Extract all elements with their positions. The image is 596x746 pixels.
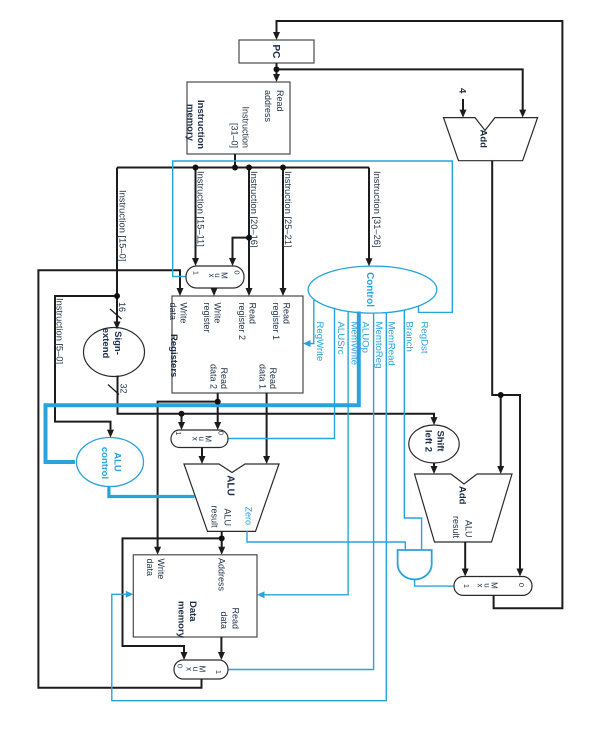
svg-text:MemWrite: MemWrite	[349, 322, 360, 366]
arrowhead: read data 2 into data memory write data	[154, 547, 161, 555]
svg-text:Instruction [20–16]: Instruction [20–16]	[249, 171, 259, 248]
arrowhead: read data into MemtoReg mux 1	[218, 652, 225, 660]
junction node: sign-extend riser tap	[179, 411, 185, 417]
svg-text:MemRead: MemRead	[386, 322, 397, 366]
wire: instruction [31-26] to control	[368, 168, 370, 259]
svg-text:MemtoReg: MemtoReg	[373, 322, 384, 369]
wire: ALUSrc mux output to ALU	[201, 448, 203, 457]
wire: control signal RegDst to mux select	[173, 161, 453, 312]
svg-text:Read: Read	[247, 303, 257, 325]
slash 32	[108, 385, 119, 395]
svg-text:4: 4	[457, 88, 468, 94]
svg-text:0: 0	[233, 270, 242, 274]
svg-text:Read: Read	[275, 90, 285, 112]
wire: instruction [5-0] to ALU control	[55, 296, 117, 430]
svg-text:RegWrite: RegWrite	[314, 322, 325, 362]
wire: instruction memory output to bus	[234, 154, 236, 168]
svg-text:Read: Read	[231, 607, 241, 629]
wire: instruction [25-21] to read register 1	[282, 168, 284, 289]
svg-text:x: x	[191, 437, 200, 441]
svg-text:Write: Write	[178, 303, 188, 324]
svg-text:1: 1	[462, 584, 471, 588]
svg-text:Read: Read	[219, 367, 229, 389]
wire: instruction bus vertical	[117, 167, 369, 169]
svg-text:0: 0	[217, 431, 226, 435]
svg-text:Instruction [31–26]: Instruction [31–26]	[372, 171, 382, 248]
arrowhead: read data 1 into ALU	[263, 456, 270, 464]
shift left 2 ellipse	[409, 425, 459, 463]
wire: PC up to Add (PC+4) top input	[277, 69, 523, 110]
arrowhead: ALUSrc mux output into ALU	[199, 456, 206, 464]
svg-text:left 2: left 2	[423, 430, 434, 452]
junction node: bus at instruction [25-21]	[280, 165, 286, 171]
svg-text:1: 1	[192, 271, 201, 275]
arrowhead: [15-0] into sign-extend	[114, 322, 121, 330]
svg-text:ALUSrc: ALUSrc	[335, 322, 346, 355]
wire: PC output to junction	[276, 63, 278, 75]
arrowhead: shift left 2 into branch adder	[431, 466, 438, 474]
arrowhead: mux output into write register	[211, 288, 218, 296]
wire: constant 4 into Add	[462, 99, 464, 110]
mux ALUSrc	[171, 430, 228, 448]
junction node: bus at memory output	[232, 165, 238, 171]
svg-text:Branch: Branch	[404, 322, 415, 352]
wire: control signal ALUSrc to mux select	[229, 308, 335, 439]
svg-text:Write: Write	[156, 559, 166, 580]
arrowhead: into PC	[273, 32, 280, 40]
wire: Add (PC+4) output	[492, 161, 501, 395]
wire: ALU control output to ALU	[109, 487, 195, 497]
wire: data memory read data to MemtoReg mux input 1	[220, 637, 222, 653]
svg-text:1: 1	[214, 670, 223, 674]
svg-text:Read: Read	[281, 303, 291, 325]
junction node: bus at instruction [15-11]	[193, 165, 199, 171]
wire: control signal MemtoReg to mux select	[229, 313, 374, 670]
wire: control signal ALUOp to ALU control	[46, 312, 359, 463]
svg-text:Instruction [5–0]: Instruction [5–0]	[55, 298, 65, 364]
svg-text:Read: Read	[268, 367, 278, 389]
svg-text:RegDst: RegDst	[419, 322, 430, 354]
wire: write-back loop to registers write data	[38, 270, 201, 687]
wire: Zero flag from ALU to AND gate	[247, 531, 405, 550]
svg-text:1: 1	[174, 431, 183, 435]
mux RegDst (write register select)	[186, 266, 244, 288]
svg-text:0: 0	[517, 583, 526, 587]
wire: read data 1 to ALU	[266, 393, 268, 457]
svg-text:Control: Control	[364, 272, 375, 307]
svg-text:x: x	[185, 667, 194, 671]
ALU (main)	[184, 464, 279, 531]
arrowhead: RegWrite into registers	[303, 340, 311, 347]
svg-text:ALU: ALU	[112, 452, 123, 472]
svg-text:extend: extend	[100, 328, 111, 359]
arrowhead: instruction [31-26] into control	[366, 258, 373, 266]
wire: branch adder output to PCSrc mux input 1	[464, 542, 466, 569]
arrowhead: PC into Add	[519, 110, 526, 118]
arrowhead: sign-extend into ALUSrc mux 1	[178, 422, 185, 430]
junction node: bus at instruction [20-16]	[246, 165, 252, 171]
svg-text:Instruction [15–11]: Instruction [15–11]	[196, 171, 206, 247]
wire: read data 2 to ALUSrc mux input 0	[217, 393, 219, 423]
svg-text:[31–0]: [31–0]	[230, 123, 240, 148]
adder Add (branch target, ALU result)	[415, 474, 513, 542]
svg-text:data: data	[219, 611, 229, 629]
svg-text:register 2: register 2	[237, 303, 247, 341]
wire: ALU result bypass to MemtoReg mux input 0	[123, 538, 222, 652]
arrowhead: into read register 2	[246, 288, 253, 296]
svg-text:result: result	[451, 516, 461, 539]
svg-text:Instruction: Instruction	[195, 100, 206, 149]
mux MemtoReg	[174, 660, 228, 679]
wire: read data 2 branch to data memory write data	[158, 402, 218, 547]
junction node: PC output	[274, 66, 280, 72]
wire: control signal MemRead to data memory	[112, 313, 387, 701]
arrowhead: into read register 1	[280, 288, 287, 296]
arrowhead: 4 into Add	[460, 110, 467, 118]
control unit ellipse	[308, 266, 437, 313]
arrowhead: read data 2 into ALUSrc mux 0	[214, 422, 221, 430]
wire: control signal RegWrite to registers	[310, 300, 314, 344]
arrowhead: [15-11] into RegDst mux 1	[192, 258, 199, 266]
instruction memory box	[187, 82, 290, 154]
wire: sign-extend output riser to shift left 2	[118, 376, 435, 418]
arrowhead: [20-16] into RegDst mux 0	[229, 258, 236, 266]
wire: shift left 2 output to branch adder	[433, 463, 435, 467]
svg-text:Instruction: Instruction	[241, 106, 251, 148]
svg-text:control: control	[99, 447, 110, 479]
arrowhead: branch target into PCSrc mux 1	[462, 569, 469, 577]
svg-text:32: 32	[119, 384, 129, 394]
svg-text:0: 0	[176, 664, 185, 668]
arrowhead: write-back into write data	[177, 288, 184, 296]
AND gate (branch)	[398, 550, 432, 579]
wire: AND gate output to PCSrc mux select	[415, 579, 454, 586]
svg-text:data: data	[145, 559, 155, 577]
svg-text:x: x	[476, 584, 485, 588]
svg-text:Add: Add	[478, 130, 489, 149]
svg-text:Instruction [15–0]: Instruction [15–0]	[118, 190, 128, 261]
junction node: instruction [5-0] tap	[114, 293, 120, 299]
junction node: PC+4 split	[498, 392, 504, 398]
svg-text:16: 16	[117, 302, 127, 312]
arrowhead: ALU result into data memory address	[218, 547, 225, 555]
wire: control signal Branch to AND gate	[404, 310, 421, 550]
wire: PCSrc mux output feedback loop to PC	[277, 21, 563, 608]
junction node: read data 2 tap	[215, 399, 221, 405]
svg-text:Sign-: Sign-	[112, 331, 123, 355]
wire: control signal MemWrite to data memory	[264, 311, 348, 595]
svg-text:PC: PC	[270, 45, 281, 59]
arrowhead: MemRead into data memory	[126, 591, 134, 598]
wire: instruction [20-16] to read register 2	[248, 168, 250, 289]
mux PCSrc (top right)	[454, 577, 532, 596]
arrowhead: [5-0] into ALU control	[107, 430, 114, 438]
svg-text:register 1: register 1	[271, 303, 281, 341]
arrowhead: ALU result into MemtoReg mux 0	[181, 652, 188, 660]
svg-text:data 1: data 1	[258, 364, 268, 389]
arrowhead: MemWrite into data memory	[257, 591, 265, 598]
registers (register file) box	[172, 296, 303, 393]
arrowhead: PC+4 into PCSrc mux 0	[517, 569, 524, 577]
slash 16	[110, 309, 122, 319]
wire: RegDst mux output to write register	[213, 288, 215, 289]
sign-extend ellipse	[84, 328, 145, 377]
svg-text:result: result	[210, 505, 220, 528]
svg-text:memory: memory	[185, 104, 196, 142]
svg-text:Data: Data	[187, 601, 198, 622]
svg-text:Shift: Shift	[435, 430, 446, 452]
wire: instruction [15-0] to sign-extend	[116, 168, 118, 322]
svg-text:data: data	[168, 303, 178, 321]
wire: sign-extend value to ALUSrc mux input 1	[181, 414, 183, 423]
wire: ALU result to data memory address	[221, 531, 223, 547]
svg-text:ALU: ALU	[225, 475, 236, 496]
adder Add (PC+4)	[444, 118, 538, 161]
wire: instruction [15-11] to RegDst mux input 1	[195, 168, 197, 259]
svg-text:ALUOp: ALUOp	[360, 322, 371, 353]
PC register box	[239, 40, 314, 63]
arrowhead: PC+4 into branch adder	[497, 466, 504, 474]
svg-text:ALU: ALU	[464, 520, 474, 538]
svg-text:Address: Address	[217, 558, 227, 592]
arrowhead: into instruction memory read address	[273, 74, 280, 82]
svg-text:Write: Write	[212, 303, 222, 324]
svg-text:ALU: ALU	[223, 508, 233, 526]
svg-text:Instruction [25–21]: Instruction [25–21]	[283, 171, 293, 248]
data memory box	[133, 555, 257, 637]
junction node: ALU result tap	[219, 535, 225, 541]
wire: PC+4 to branch adder top input	[500, 395, 502, 467]
svg-text:Registers: Registers	[168, 334, 179, 377]
svg-text:x: x	[207, 274, 216, 278]
svg-text:address: address	[263, 90, 273, 123]
ALU control ellipse	[77, 438, 144, 487]
svg-text:Zero: Zero	[244, 506, 254, 525]
arrowhead: into shift left 2	[431, 417, 438, 425]
svg-text:register: register	[202, 303, 212, 333]
wire: PC+4 to PCSrc mux input 0	[501, 395, 520, 569]
svg-text:memory: memory	[176, 601, 187, 639]
wire: PC to instruction memory read address	[276, 69, 278, 74]
svg-text:data 2: data 2	[209, 364, 219, 389]
junction node: [20-16] tap	[246, 235, 252, 241]
svg-text:Add: Add	[457, 486, 468, 505]
wire: instruction [20-16] branch to RegDst mux input 0	[233, 238, 250, 259]
